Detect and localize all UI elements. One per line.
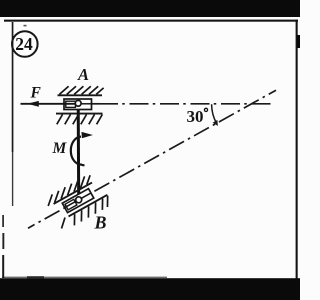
bar AB (vertical link) — [77, 104, 81, 200]
svg-text:30: 30 — [187, 107, 204, 126]
slider B: upper guide line — [54, 183, 92, 204]
slider B: inner block — [65, 199, 77, 209]
slider A: lower hatching — [57, 115, 103, 125]
svg-text:24: 24 — [15, 34, 33, 54]
force F line into slider A — [21, 103, 76, 105]
moment M arrowhead — [82, 132, 93, 138]
slider B: block — [62, 189, 93, 213]
bottom band fuzzy top edge — [2, 277, 167, 279]
force F arrowhead — [27, 101, 39, 107]
svg-text:A: A — [77, 65, 89, 84]
slider B: upper hatching — [44, 174, 93, 206]
svg-text:B: B — [94, 213, 107, 233]
inclined centerline 30 deg (dash-dot) — [28, 90, 276, 228]
angle arc arrowhead — [213, 120, 218, 126]
svg-text:F: F — [30, 85, 42, 102]
angle arc 30 deg — [212, 104, 217, 123]
slider A: upper hatching — [59, 86, 103, 94]
svg-text:M: M — [52, 140, 68, 157]
slider A: upper guide line — [58, 94, 103, 96]
right edge scan mark — [297, 35, 300, 48]
incline centerline through slider B block — [65, 193, 90, 207]
frame right border line — [296, 20, 298, 279]
pin at A — [75, 100, 81, 106]
slider A: block — [64, 99, 92, 110]
scan speck above badge — [24, 25, 27, 27]
horizontal centerline short dash left of slider — [92, 103, 100, 105]
slider B assembly (rotated -29.1deg about pin) — [44, 171, 112, 232]
pin at B — [76, 197, 82, 203]
stray hatch stroke below B — [62, 218, 66, 229]
moment M arc — [71, 137, 85, 166]
frame top border line — [4, 20, 298, 22]
slider B: lower guide line — [69, 195, 108, 217]
frame left border line — [12, 22, 14, 152]
slider B: lower hatching — [70, 196, 113, 226]
horizontal centerline (dash-dot, right of slider A) — [99, 103, 271, 105]
slider A: inner block — [66, 101, 76, 107]
problem number badge circle — [12, 31, 38, 57]
slider A: lower guide line — [56, 113, 103, 115]
centerline through slider A block — [80, 103, 92, 105]
top black scan band — [0, 0, 300, 17]
bottom black scan band — [0, 278, 300, 300]
left page-edge marks — [2, 215, 4, 227]
